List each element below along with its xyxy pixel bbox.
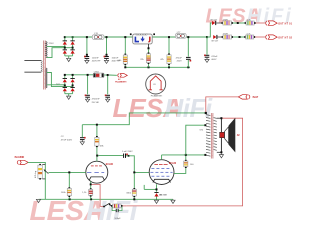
node plate V1 [96, 155, 98, 157]
svg-text:100pF: 100pF [114, 218, 121, 220]
wire speaker line [220, 118, 222, 152]
diode D2 [70, 40, 74, 44]
capacitor C3 470nF + ground [204, 37, 218, 62]
svg-text:400V: 400V [211, 59, 217, 61]
diode D10 BY127 [213, 35, 216, 39]
svg-text:OUT HT 02: OUT HT 02 [278, 37, 292, 39]
svg-text:OB 7,5V: OB 7,5V [159, 194, 167, 196]
svg-text:OUT HT 01: OUT HT 01 [278, 23, 292, 25]
wire U1 adj lead [148, 44, 150, 48]
connector OUT HT 02 arrow [266, 35, 267, 39]
capacitor C1b 100mF [104, 54, 121, 64]
capacitor C5 4700mF [105, 95, 110, 103]
wire secondary top tap B [47, 48, 73, 58]
branch OUT HT 01 [211, 19, 293, 25]
wire cathode V2 [144, 184, 156, 192]
wire secondary top tap A [47, 46, 65, 47]
regulator U1 blue box [130, 33, 155, 52]
primary winding [206, 115, 210, 157]
svg-text:LT84: LT84 [94, 71, 100, 73]
svg-text:470uF: 470uF [176, 57, 183, 59]
zener OB 7,5V [154, 192, 167, 199]
transformer T1 core [44, 41, 46, 90]
diode D1 [63, 40, 67, 44]
wire to OUT HT 01 [256, 22, 265, 24]
tube V2 ECL86 pentode [149, 160, 177, 185]
connector OUT HT 01 arrow [266, 21, 267, 25]
core [210, 113, 212, 159]
svg-text:250V: 250V [177, 61, 183, 63]
svg-text:BY127: BY127 [212, 41, 219, 43]
watermark LESA HiFi middle [113, 93, 213, 123]
resistor R2 22k [140, 52, 150, 67]
diode D7 [63, 87, 67, 91]
connector IN AUDIO [15, 156, 29, 165]
wire ground rail bottom [39, 198, 174, 200]
wire wiper to grid V1 [48, 171, 85, 173]
resistor R9 330k grid leak [126, 173, 136, 199]
resistor R3 47k [160, 53, 171, 67]
ground bridge1 [67, 58, 71, 61]
watermark LESA HiFi bottom-left [30, 195, 139, 226]
resistor R13 feedback [111, 204, 126, 208]
svg-text:FILAMENTI: FILAMENTI [115, 81, 127, 84]
filament rail [88, 75, 117, 95]
diode D4 [70, 49, 74, 53]
wire bridge2 frame [65, 75, 88, 96]
diode D8 [70, 87, 74, 91]
wire UL tap to g2 [186, 125, 206, 155]
svg-text:1 mF 250V: 1 mF 250V [122, 151, 133, 153]
wire IN HT to OPT [206, 97, 239, 113]
transformer T1 secondary winding bottom [46, 68, 47, 88]
lamp FILAMENTI symbol [146, 74, 166, 97]
svg-text:470nF: 470nF [211, 56, 218, 58]
ground bottom-left [36, 199, 40, 202]
resistor R6 470R [222, 36, 223, 38]
svg-text:47mF 400V: 47mF 400V [61, 139, 73, 141]
node bridge1 AC dots [64, 47, 66, 49]
connector IN HT arrow [238, 95, 258, 99]
wire input [28, 162, 46, 199]
diode D3 [63, 49, 67, 53]
resistor R5 4,7k [245, 22, 246, 24]
secondary leads [217, 117, 222, 119]
speaker AP [220, 118, 241, 153]
diode D6 [70, 78, 74, 82]
node bridge2 dots [64, 84, 66, 86]
wire feedback red [92, 118, 243, 206]
svg-text:100mF: 100mF [92, 57, 99, 59]
node dots on B+ rail [86, 36, 208, 38]
capacitor C1a 100mF [84, 54, 101, 64]
svg-text:FILAMENTI: FILAMENTI [151, 94, 163, 97]
choke L1 [92, 33, 104, 40]
bridge rectifier 1 (HT) [63, 36, 75, 62]
capacitor C6 filter + ground [61, 125, 86, 145]
ground speaker [219, 153, 223, 158]
svg-text:25V HF: 25V HF [92, 102, 100, 104]
svg-text:470R: 470R [223, 19, 229, 21]
secondary winding [214, 118, 217, 151]
svg-text:47k log.: 47k log. [35, 170, 37, 178]
ground under zener [154, 199, 158, 203]
capacitor C8 feedback parallel [112, 207, 122, 220]
resistor R11 100k [61, 173, 72, 199]
output transformer TU1 [206, 113, 221, 159]
connector 6V FILAMENTI arrow [115, 74, 127, 84]
wire secondary bottom tap A [47, 84, 65, 87]
switch S1 [103, 203, 112, 207]
capacitor C4 4700mF [85, 95, 101, 104]
diode D5 [63, 78, 67, 82]
resistor R10 g2 stopper [174, 156, 194, 174]
wire OUT branch riser [207, 23, 212, 37]
resistor R12 1,2k [82, 185, 93, 199]
svg-text:ECL86: ECL86 [169, 163, 177, 165]
fuse F1 inline [93, 71, 104, 77]
svg-text:BY127: BY127 [211, 19, 218, 21]
wire grid V2 [129, 156, 150, 173]
potentiometer P1 47k [35, 164, 49, 180]
node cathode V1 [90, 181, 92, 184]
wire to OUT HT 02 [255, 36, 265, 38]
svg-text:IN HT: IN HT [253, 97, 259, 99]
resistor R8 plate load [95, 124, 105, 156]
bridge rectifier 2 (filament) [63, 74, 88, 100]
wire bridge1 frame [65, 37, 73, 58]
wire B+ rail [65, 37, 207, 57]
ground rail right end [171, 199, 175, 203]
svg-text:400V HF: 400V HF [92, 61, 101, 63]
svg-text:IN AUDIO: IN AUDIO [15, 156, 25, 159]
resistor R7 4,7k [244, 36, 245, 38]
transformer T1 secondary winding top [46, 42, 47, 58]
transformer T1 primary leads [24, 60, 42, 72]
svg-text:4700mF: 4700mF [92, 99, 101, 101]
wire secondary bottom tap B [47, 73, 73, 87]
wire plate V2 to OPT [162, 155, 206, 160]
wire mid rail [125, 66, 190, 68]
watermark LESA HiFi top-right [206, 5, 293, 27]
choke L2 [175, 32, 186, 38]
svg-text:220V: 220V [49, 43, 55, 45]
resistor R4 470R [222, 22, 223, 24]
wire B+ amp rail [82, 113, 206, 125]
tube V1 ECL86 triode [86, 161, 114, 183]
capacitor C2a 470uF [176, 57, 192, 67]
svg-text:ECL86: ECL86 [106, 164, 114, 166]
ground bridge2 [67, 96, 71, 99]
svg-text:470R: 470R [223, 33, 229, 35]
capacitor C7 coupling 1mF [98, 151, 133, 158]
diode D9 BY127 [212, 21, 215, 25]
resistor R1 4,7k [117, 54, 127, 68]
branch OUT HT 02 [212, 33, 293, 42]
